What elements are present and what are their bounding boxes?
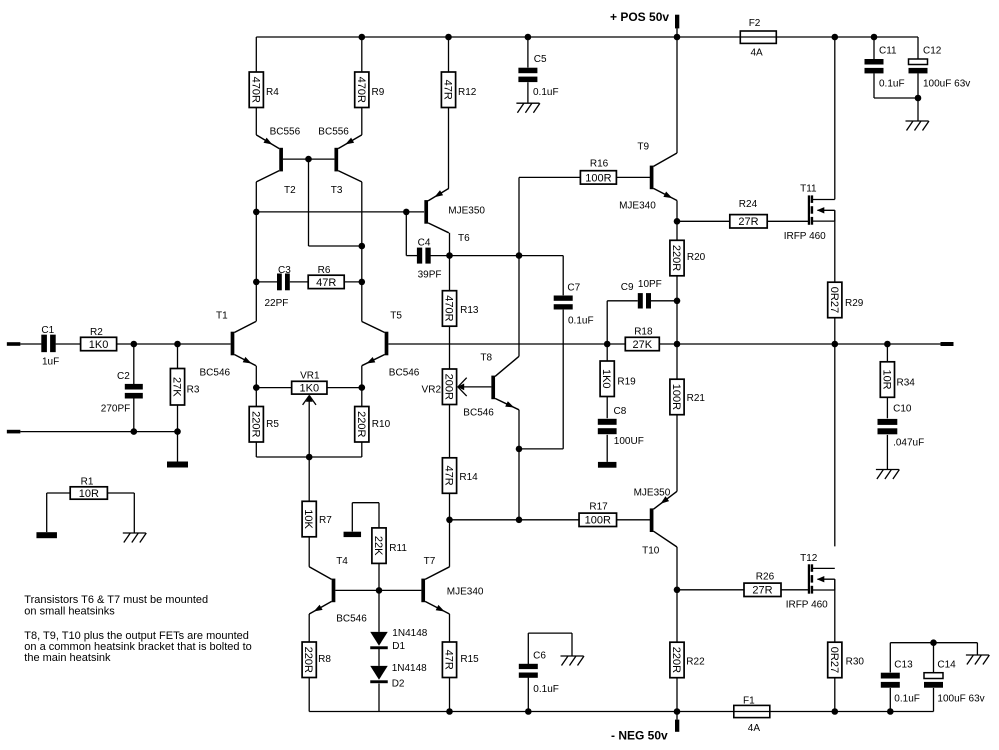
- svg-text:C3: C3: [278, 265, 291, 276]
- svg-text:VR2: VR2: [422, 384, 442, 395]
- svg-text:R15: R15: [460, 654, 479, 665]
- svg-text:BC546: BC546: [336, 614, 367, 625]
- svg-text:T3: T3: [331, 185, 343, 196]
- svg-text:D1: D1: [392, 641, 405, 652]
- svg-text:the main heatsink: the main heatsink: [24, 652, 111, 664]
- svg-text:T2: T2: [284, 185, 296, 196]
- svg-text:C4: C4: [418, 237, 431, 248]
- svg-text:C5: C5: [534, 54, 547, 65]
- svg-text:0.1uF: 0.1uF: [879, 78, 905, 89]
- svg-text:220R: 220R: [302, 647, 314, 673]
- svg-text:C7: C7: [567, 283, 580, 294]
- svg-text:0.1uF: 0.1uF: [533, 87, 559, 98]
- svg-text:10R: 10R: [880, 369, 892, 389]
- svg-text:.047uF: .047uF: [893, 438, 924, 449]
- svg-text:100R: 100R: [585, 515, 611, 527]
- svg-text:1K0: 1K0: [89, 339, 109, 351]
- svg-text:100uF 63v: 100uF 63v: [923, 78, 970, 89]
- svg-text:BC546: BC546: [389, 368, 420, 379]
- svg-text:470R: 470R: [443, 295, 455, 321]
- svg-text:C14: C14: [937, 660, 956, 671]
- svg-text:470R: 470R: [249, 77, 261, 103]
- svg-text:D2: D2: [392, 678, 405, 689]
- svg-text:R11: R11: [389, 543, 407, 554]
- svg-text:200R: 200R: [443, 374, 455, 400]
- svg-text:100UF: 100UF: [614, 436, 644, 447]
- svg-text:VR1: VR1: [300, 370, 320, 381]
- svg-text:C10: C10: [893, 404, 912, 415]
- svg-text:T5: T5: [390, 311, 402, 322]
- svg-text:220R: 220R: [355, 411, 367, 437]
- svg-text:R20: R20: [687, 252, 706, 263]
- svg-text:R29: R29: [845, 298, 864, 309]
- svg-text:R19: R19: [617, 377, 636, 388]
- svg-text:T8: T8: [480, 353, 492, 364]
- svg-text:27K: 27K: [171, 377, 183, 397]
- svg-text:100uF 63v: 100uF 63v: [937, 694, 984, 705]
- svg-text:1N4148: 1N4148: [392, 663, 427, 674]
- svg-text:T11: T11: [800, 184, 817, 195]
- svg-text:BC546: BC546: [463, 408, 494, 419]
- svg-text:R18: R18: [634, 327, 653, 338]
- svg-text:R4: R4: [266, 87, 279, 98]
- svg-text:220R: 220R: [670, 647, 682, 673]
- svg-text:22K: 22K: [372, 536, 384, 556]
- svg-text:R7: R7: [319, 515, 332, 526]
- svg-text:R9: R9: [372, 87, 385, 98]
- svg-text:22PF: 22PF: [265, 298, 289, 309]
- svg-text:MJE340: MJE340: [619, 201, 656, 212]
- svg-text:470R: 470R: [355, 77, 367, 103]
- svg-text:C8: C8: [614, 406, 627, 417]
- svg-text:on a common heatsink bracket t: on a common heatsink bracket that is bol…: [24, 641, 251, 653]
- svg-text:T9: T9: [637, 142, 649, 153]
- svg-text:T6: T6: [458, 233, 470, 244]
- svg-text:47R: 47R: [443, 650, 455, 670]
- svg-text:0R27: 0R27: [828, 287, 840, 313]
- svg-text:F2: F2: [749, 18, 761, 29]
- svg-text:R12: R12: [458, 87, 477, 98]
- svg-text:R17: R17: [589, 502, 608, 513]
- svg-text:R21: R21: [687, 393, 706, 404]
- svg-text:R24: R24: [739, 199, 758, 210]
- svg-text:27K: 27K: [633, 339, 653, 351]
- svg-text:T1: T1: [216, 311, 228, 322]
- svg-text:R22: R22: [686, 657, 705, 668]
- svg-text:47R: 47R: [316, 277, 336, 289]
- svg-text:R5: R5: [266, 419, 279, 430]
- svg-text:R3: R3: [187, 385, 200, 396]
- svg-text:F1: F1: [743, 695, 755, 706]
- svg-text:C2: C2: [117, 371, 130, 382]
- svg-text:BC546: BC546: [200, 368, 231, 379]
- svg-text:T4: T4: [336, 556, 348, 567]
- svg-text:- NEG 50v: - NEG 50v: [611, 728, 668, 742]
- svg-text:220R: 220R: [670, 245, 682, 271]
- svg-text:27R: 27R: [752, 585, 772, 597]
- svg-text:100R: 100R: [585, 172, 611, 184]
- svg-text:R13: R13: [460, 305, 479, 316]
- svg-text:R2: R2: [90, 327, 103, 338]
- svg-text:C1: C1: [41, 325, 54, 336]
- svg-text:47R: 47R: [443, 465, 455, 485]
- svg-text:R8: R8: [318, 654, 331, 665]
- svg-text:C11: C11: [879, 46, 897, 57]
- svg-text:0.1uF: 0.1uF: [533, 684, 559, 695]
- svg-text:R30: R30: [846, 657, 865, 668]
- svg-text:MJE350: MJE350: [448, 206, 485, 217]
- svg-text:10R: 10R: [79, 488, 99, 500]
- svg-text:Transistors T6 & T7 must be mo: Transistors T6 & T7 must be mounted: [24, 594, 208, 606]
- svg-text:IRFP 460: IRFP 460: [784, 231, 826, 242]
- svg-text:R26: R26: [756, 572, 775, 583]
- svg-text:0R27: 0R27: [828, 647, 840, 673]
- svg-text:on small heatsinks: on small heatsinks: [24, 605, 115, 617]
- svg-text:BC556: BC556: [318, 127, 349, 138]
- svg-text:220R: 220R: [249, 411, 261, 437]
- svg-text:10K: 10K: [302, 509, 314, 529]
- svg-text:R14: R14: [459, 472, 478, 483]
- svg-text:100R: 100R: [670, 384, 682, 410]
- svg-text:T7: T7: [424, 556, 436, 567]
- svg-text:C13: C13: [894, 660, 913, 671]
- svg-text:R10: R10: [372, 419, 391, 430]
- svg-text:0.1uF: 0.1uF: [568, 316, 594, 327]
- svg-text:T8, T9, T10 plus the output FE: T8, T9, T10 plus the output FETs are mou…: [24, 630, 249, 642]
- svg-text:1N4148: 1N4148: [392, 628, 427, 639]
- svg-text:1K0: 1K0: [300, 383, 320, 395]
- svg-text:1uF: 1uF: [42, 357, 59, 368]
- svg-text:C12: C12: [923, 46, 942, 57]
- svg-text:4A: 4A: [751, 48, 764, 59]
- svg-text:+ POS 50v: + POS 50v: [610, 10, 669, 24]
- svg-text:R1: R1: [81, 477, 94, 488]
- svg-text:MJE340: MJE340: [447, 587, 484, 598]
- svg-text:R16: R16: [590, 159, 609, 170]
- svg-text:27R: 27R: [738, 216, 758, 228]
- svg-text:39PF: 39PF: [418, 270, 442, 281]
- svg-text:T10: T10: [642, 545, 660, 556]
- svg-text:0.1uF: 0.1uF: [894, 694, 920, 705]
- svg-text:IRFP 460: IRFP 460: [786, 600, 828, 611]
- svg-text:270PF: 270PF: [101, 404, 130, 415]
- svg-text:T12: T12: [800, 553, 818, 564]
- svg-text:1K0: 1K0: [600, 369, 612, 389]
- svg-text:4A: 4A: [748, 723, 761, 734]
- svg-text:10PF: 10PF: [638, 279, 662, 290]
- svg-text:R6: R6: [318, 265, 331, 276]
- svg-text:C9: C9: [621, 282, 634, 293]
- svg-text:R34: R34: [897, 378, 916, 389]
- svg-text:C6: C6: [533, 651, 546, 662]
- svg-text:BC556: BC556: [270, 127, 301, 138]
- svg-text:MJE350: MJE350: [634, 488, 671, 499]
- svg-text:47R: 47R: [442, 80, 454, 100]
